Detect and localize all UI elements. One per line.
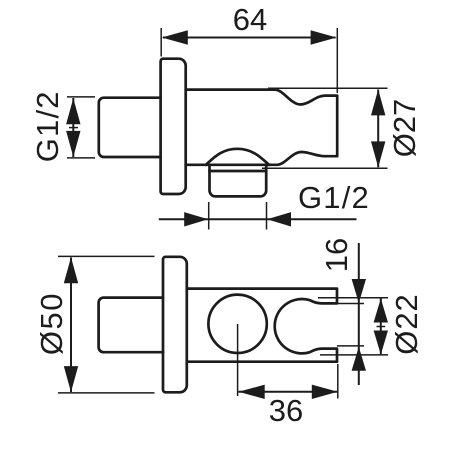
dimension line G1/2: [72, 98, 74, 157]
extension line right of 64: [336, 28, 338, 93]
extension line top d27: [268, 87, 388, 89]
center tick G1/2: [69, 127, 78, 129]
extension line left outlet: [208, 202, 210, 230]
inlet pipe G1/2 (front view): [99, 298, 163, 353]
arrowhead down d50: [64, 366, 78, 392]
arrowhead right 64: [311, 30, 337, 44]
extension line bottom d50: [58, 392, 155, 394]
dimension line 36: [239, 391, 338, 393]
dimension 16: [319, 238, 366, 385]
dimension diameter 27: [262, 88, 422, 168]
reference line top 16: [337, 303, 364, 305]
arrowhead up G1/2: [66, 98, 80, 124]
svg-text:Ø22: Ø22: [389, 293, 424, 355]
arrowhead down 16: [352, 279, 366, 303]
svg-text:16: 16: [319, 238, 354, 272]
dimension G1/2 outlet (side view): [159, 180, 370, 230]
outlet dome (side view): [206, 149, 269, 165]
svg-text:Ø27: Ø27: [387, 99, 422, 158]
dimension diameter 22: [318, 293, 424, 355]
extension line bottom d22: [320, 354, 388, 356]
extension line top d50: [58, 255, 155, 257]
arrowhead left 64: [162, 30, 188, 44]
dimension line outlet G1/2: [159, 218, 357, 220]
dimension 36: [238, 324, 338, 428]
arrowhead left-pointing outlet: [267, 212, 291, 226]
dimension line 64: [163, 37, 336, 39]
svg-text:Ø50: Ø50: [34, 292, 69, 355]
dimension line d27: [377, 90, 379, 168]
svg-text:G1/2: G1/2: [298, 180, 370, 215]
wall flange (side view): [161, 59, 186, 194]
arrowhead up d22: [374, 299, 388, 323]
extension line bottom G1/2: [67, 157, 95, 159]
arrowhead left 36: [239, 385, 265, 399]
arrowhead down d27: [371, 141, 385, 167]
wall flange (front view): [163, 257, 187, 393]
arrowhead up d50: [64, 257, 78, 283]
inlet pipe G1/2 (side view): [99, 98, 161, 157]
arrowhead up 16: [352, 347, 366, 371]
arrowhead up d27: [371, 89, 385, 115]
extension line left of 64: [160, 28, 162, 57]
dimension 64: [161, 2, 337, 93]
extension line bottom d27: [262, 167, 388, 169]
dimension line 16: [358, 243, 360, 385]
outlet nut G1/2 (side view): [210, 165, 267, 197]
arrowhead down G1/2: [66, 131, 80, 157]
svg-text:64: 64: [233, 2, 267, 37]
svg-text:36: 36: [269, 393, 303, 428]
center tick d22: [377, 326, 386, 328]
swivel circle (front view): [208, 295, 266, 353]
extension line top d22: [318, 297, 388, 299]
svg-text:G1/2: G1/2: [30, 90, 65, 162]
dimension diameter 50: [34, 256, 155, 393]
dimension line d50: [70, 258, 72, 393]
extension line right outlet: [266, 202, 268, 230]
dimension line d22: [380, 299, 382, 355]
dimension G1/2 inlet (side view): [30, 90, 95, 162]
holder body profile (side view): [186, 90, 338, 165]
arrowhead right-pointing outlet: [184, 212, 208, 226]
reference line bottom 16: [337, 345, 364, 347]
arrowhead right 36: [312, 385, 338, 399]
extension line top G1/2: [67, 96, 95, 98]
extension line right of 36: [337, 364, 339, 399]
outlet nut collar line: [210, 170, 267, 173]
center line from swivel: [237, 324, 239, 396]
arrowhead down d22: [374, 331, 388, 355]
holder body with fork (front view): [187, 289, 337, 362]
